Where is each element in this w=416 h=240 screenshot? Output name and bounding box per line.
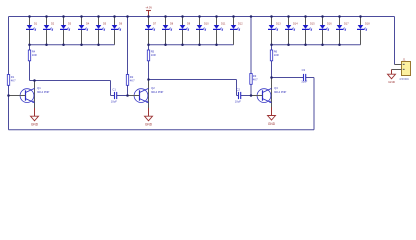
wire rail to R5 xyxy=(148,45,150,50)
ground xyxy=(268,107,276,126)
LED D12 xyxy=(230,17,243,44)
base pin Q1 xyxy=(9,95,26,97)
resistor R4 10R xyxy=(28,50,36,61)
svg-text:R3: R3 xyxy=(253,74,257,78)
connector J1 4.5VDC xyxy=(399,57,410,81)
LED D1 xyxy=(26,17,38,44)
LED D6 xyxy=(111,17,123,44)
capacitor C1 10uF xyxy=(111,87,117,103)
svg-text:4.5VDC: 4.5VDC xyxy=(399,77,409,81)
LED D3 xyxy=(60,17,72,44)
svg-text:C2: C2 xyxy=(236,87,240,91)
svg-text:10R: 10R xyxy=(151,53,156,57)
junction dots cathode rails xyxy=(28,43,341,46)
wire left drop to R1 xyxy=(8,17,10,75)
wire +V to R3 xyxy=(250,17,252,74)
svg-text:D14: D14 xyxy=(293,22,298,25)
wire LED group 2 cathode rail xyxy=(149,44,234,46)
svg-text:10R: 10R xyxy=(32,53,37,57)
capacitor C3 10uF xyxy=(301,68,307,83)
svg-text:D5: D5 xyxy=(103,22,107,25)
LED D15 xyxy=(302,17,315,44)
svg-text:R5: R5 xyxy=(151,50,155,54)
svg-text:10uF: 10uF xyxy=(235,100,241,104)
pin J1-1 xyxy=(395,64,402,66)
LED D9 xyxy=(179,17,191,44)
LED D18 xyxy=(357,17,370,44)
wire C2 to Q3 base node xyxy=(241,95,252,97)
svg-text:D3: D3 xyxy=(68,22,72,25)
svg-text:D10: D10 xyxy=(204,22,209,25)
svg-text:4K7: 4K7 xyxy=(11,79,16,83)
svg-text:D6: D6 xyxy=(119,22,123,25)
wire R2 to Q2 base node xyxy=(127,85,129,96)
svg-text:GND: GND xyxy=(31,123,39,127)
svg-text:R4: R4 xyxy=(32,50,36,54)
svg-text:+4.5V: +4.5V xyxy=(145,7,152,10)
svg-text:9014 PNP: 9014 PNP xyxy=(151,90,163,94)
base pin Q2 xyxy=(128,95,140,97)
wire stage1 collector run to C1 xyxy=(35,81,115,96)
wire C1 to Q2 base node xyxy=(117,95,128,97)
svg-text:D17: D17 xyxy=(344,22,349,25)
svg-text:D11: D11 xyxy=(221,22,226,25)
svg-text:R6: R6 xyxy=(274,50,278,54)
LED D16 xyxy=(319,17,332,44)
wire R1 to Q1 base node and down to feedback xyxy=(8,85,10,130)
svg-text:4K7: 4K7 xyxy=(253,78,258,82)
svg-text:Q2: Q2 xyxy=(151,86,155,90)
svg-text:10uF: 10uF xyxy=(111,100,117,104)
wire R3 to Q3 base node xyxy=(250,84,252,96)
svg-text:10R: 10R xyxy=(274,53,279,57)
resistor R5 10R xyxy=(147,50,155,61)
transistor Q1 9014 NPN xyxy=(20,81,49,109)
ground at J1 xyxy=(388,70,396,84)
base pin Q3 xyxy=(251,95,263,97)
LED D4 xyxy=(78,17,90,44)
svg-text:D13: D13 xyxy=(276,22,281,25)
svg-text:Q3: Q3 xyxy=(274,86,278,90)
svg-text:D8: D8 xyxy=(170,22,174,25)
ground xyxy=(145,108,153,127)
LED D14 xyxy=(285,17,298,44)
wire LED group 1 cathode rail xyxy=(30,44,115,46)
LED D5 xyxy=(95,17,107,44)
svg-text:Q1: Q1 xyxy=(37,86,41,90)
wire right drop to J1 xyxy=(394,17,396,65)
svg-text:D1: D1 xyxy=(34,22,38,25)
svg-text:R2: R2 xyxy=(130,75,134,79)
svg-text:D12: D12 xyxy=(238,22,243,25)
capacitor C2 10uF xyxy=(235,87,241,103)
resistor R6 10R xyxy=(270,50,278,61)
LED D10 xyxy=(196,17,209,44)
LED D8 xyxy=(162,17,174,44)
svg-text:C3: C3 xyxy=(302,68,306,72)
junction dot Q2 collector node xyxy=(147,78,150,81)
wire R5 to collector node xyxy=(148,61,150,80)
resistor R3 4K7 xyxy=(250,74,258,85)
junction dot Q2 base node xyxy=(126,94,129,97)
svg-text:GND: GND xyxy=(388,80,396,84)
svg-text:R1: R1 xyxy=(11,75,15,79)
transistor Q2 9014 NPN xyxy=(134,80,163,109)
svg-text:GND: GND xyxy=(268,122,276,126)
wire top +V rail xyxy=(9,16,395,18)
LED D13 xyxy=(268,17,281,44)
junction dot Q3 base node xyxy=(250,94,253,97)
svg-text:D4: D4 xyxy=(86,22,90,25)
svg-text:D15: D15 xyxy=(310,22,315,25)
LED D2 xyxy=(43,17,55,44)
transistor Q3 9014 NPN xyxy=(257,78,286,109)
svg-text:C1: C1 xyxy=(112,87,116,91)
LED D11 xyxy=(213,17,226,44)
svg-text:D9: D9 xyxy=(187,22,191,25)
wire R6 to collector node xyxy=(271,61,273,78)
svg-text:10uF: 10uF xyxy=(301,79,307,83)
wire R4 to collector node xyxy=(30,61,35,81)
junction dot Q3 collector node xyxy=(270,76,273,79)
svg-text:9014 PNP: 9014 PNP xyxy=(37,90,49,94)
svg-text:J1: J1 xyxy=(403,57,406,61)
wire rail to R6 xyxy=(271,45,273,50)
ground xyxy=(31,108,39,127)
resistor R2 4K7 xyxy=(126,75,135,86)
wire +V to R2 xyxy=(127,17,129,75)
junction dot Q1 collector node xyxy=(33,79,36,82)
svg-text:9014 PNP: 9014 PNP xyxy=(274,90,286,94)
resistor R1 4K7 xyxy=(7,75,16,86)
wire stage3 collector to C3 xyxy=(272,77,304,79)
wire stage2 collector run to C2 xyxy=(149,80,239,96)
junction dots top rail xyxy=(28,15,362,18)
LED D7 xyxy=(145,17,157,44)
svg-text:D18: D18 xyxy=(365,22,370,25)
wire rail to R4 xyxy=(29,45,31,50)
wire LED group 3 cathode rail xyxy=(272,44,361,46)
wire feedback bottom run xyxy=(9,129,315,131)
svg-text:D7: D7 xyxy=(153,22,157,25)
wire C3 right lead to riser xyxy=(306,77,315,79)
wire feedback riser xyxy=(313,78,315,130)
power port +4.5V xyxy=(145,7,152,17)
LED D17 xyxy=(336,17,349,44)
svg-text:GND: GND xyxy=(145,123,153,127)
svg-text:D2: D2 xyxy=(51,22,55,25)
svg-text:D16: D16 xyxy=(327,22,332,25)
svg-text:4K7: 4K7 xyxy=(130,79,135,83)
junction dot Q1 base node xyxy=(7,94,10,97)
pin J1-2 xyxy=(392,69,402,71)
